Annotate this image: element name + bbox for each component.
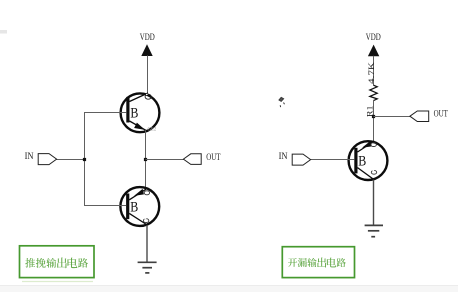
wire Q1 base to input bus <box>84 112 126 114</box>
port IN (left) <box>38 154 56 165</box>
transistor Q2 (PNP, bottom) <box>120 187 159 226</box>
transistor Q1 (NPN, top) <box>121 93 160 132</box>
wire VDD to Q1 collector <box>147 56 149 96</box>
wire node to OUT port (left) <box>146 159 184 161</box>
power VDD (right) arrow <box>368 45 379 57</box>
svg-text:VDD: VDD <box>140 32 155 42</box>
port OUT (left) <box>183 154 201 165</box>
wire Q2 base to bus <box>84 205 126 207</box>
ground (left) <box>138 262 157 273</box>
node IN junction <box>83 158 86 161</box>
svg-text:B: B <box>130 105 138 121</box>
wire VDD to resistor R1 <box>373 56 375 86</box>
ground (right) <box>365 225 383 236</box>
node OUT junction (right) <box>372 115 375 118</box>
label text 推挽输出电路 <box>25 258 35 268</box>
svg-text:4.7K: 4.7K <box>367 62 376 84</box>
stray mark near right circuit <box>279 97 285 107</box>
pin label E (Q3) <box>371 143 377 147</box>
pin label C (Q1) <box>145 94 151 99</box>
ghost line under left box <box>22 281 93 283</box>
wire input bus (vertical) <box>84 112 86 206</box>
wire output node (vertical) <box>145 130 147 189</box>
wire resistor to OUT node <box>373 100 375 143</box>
pin label C (Q2) <box>143 219 148 223</box>
node OUT junction (left) <box>144 158 147 161</box>
label box: push-pull output circuit <box>20 246 95 278</box>
wire IN port to Q3 base <box>310 159 354 161</box>
wire node to OUT port (right) <box>374 116 411 118</box>
svg-text:B: B <box>130 200 138 216</box>
svg-text:OUT: OUT <box>206 152 221 162</box>
port OUT (right) <box>410 111 429 122</box>
port IN (right) <box>292 154 310 165</box>
svg-text:IN: IN <box>25 151 34 161</box>
stray mark top-left <box>0 30 7 34</box>
label box: open-drain output circuit <box>282 247 354 278</box>
page bottom strip <box>0 286 458 292</box>
svg-text:B: B <box>358 154 366 170</box>
svg-text:VDD: VDD <box>366 32 381 42</box>
wire Q3 emitter to ground <box>373 180 375 226</box>
transistor Q3 (right) <box>349 141 388 180</box>
power VDD (left) arrow <box>141 44 152 56</box>
label text 开漏输出电路 <box>288 258 297 267</box>
pin label C (Q3) <box>371 170 376 174</box>
pin label E (Q2) <box>144 191 149 195</box>
resistor R1 zigzag <box>370 85 377 100</box>
svg-text:OUT: OUT <box>434 108 449 118</box>
wire IN port to bus <box>56 159 85 161</box>
wire Q2 collector to ground <box>146 225 148 262</box>
svg-text:GE2: GE2 <box>148 128 157 133</box>
svg-text:IN: IN <box>279 151 288 161</box>
